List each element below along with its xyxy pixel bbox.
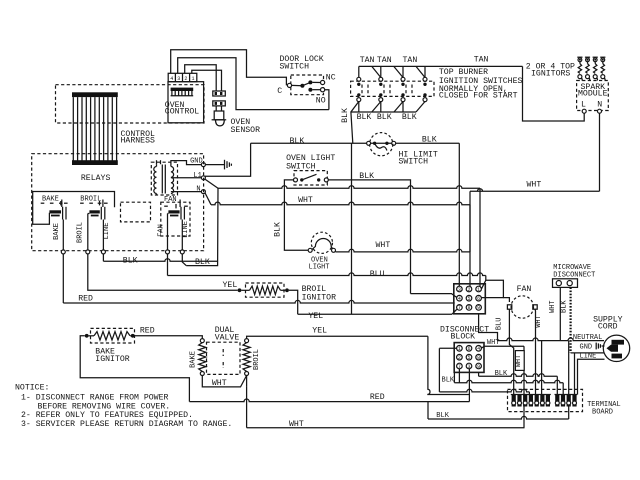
blu wire fan relay to fan [168, 273, 486, 276]
wire line1 blk to L1 vertical [102, 254, 104, 261]
svg-text:WHT: WHT [549, 300, 557, 313]
ignition switch 2 bottom diagonal [394, 102, 403, 113]
boxed WHT label on wires [515, 351, 524, 371]
wht vertical drop to block col2 [469, 191, 471, 286]
broil ignitor resistor [241, 289, 249, 291]
svg-text:WHT: WHT [212, 379, 227, 388]
svg-text:BLK: BLK [436, 412, 449, 420]
svg-text:FAN: FAN [157, 224, 165, 237]
neutral wire to upper block [479, 314, 498, 341]
terminal line1 [101, 250, 105, 254]
wire blk drop from switches [351, 102, 359, 144]
svg-text:C: C [277, 87, 282, 96]
fan relay dashed box [161, 202, 190, 236]
wire fan relay blu [167, 254, 169, 276]
oven light lamp filament [312, 239, 333, 250]
broil valve coil [243, 343, 250, 372]
disconnect block lower box [454, 343, 484, 373]
svg-text:BLK: BLK [561, 300, 569, 313]
jumper loop right of upper block [481, 280, 503, 297]
wire L1 vertical down [186, 188, 218, 265]
neutral riser to comb [541, 341, 543, 395]
svg-text:L1: L1 [193, 172, 201, 180]
spark ignitor symbol 4 [601, 58, 605, 62]
wire spark N white down [599, 113, 601, 191]
relays ribbon top bar [72, 92, 118, 97]
chassis ground symbol [205, 164, 224, 166]
neutral wire [498, 338, 605, 341]
microwave terminal 2 [567, 281, 572, 286]
dual valve dashed box [207, 342, 241, 374]
wire transformer N [171, 191, 202, 193]
disconnect block lower terminal r1c1 [457, 346, 463, 352]
svg-text:BEFORE REMOVING WIRE COVER.: BEFORE REMOVING WIRE COVER. [38, 402, 171, 411]
wire broil valve bottom down [246, 376, 248, 387]
fan left stub to jumper [503, 298, 509, 302]
svg-text:BLK: BLK [341, 108, 350, 123]
svg-text:FAN: FAN [164, 196, 177, 204]
oven light lamp dashed circle [311, 232, 332, 253]
fan relay mini marks [164, 205, 168, 207]
oven sensor bulb [214, 111, 224, 120]
svg-text:TAN: TAN [360, 56, 375, 65]
oven light lamp terminals [308, 248, 312, 252]
fan wht wire down [534, 309, 537, 394]
line wire from fan relay [181, 220, 183, 251]
tan bus top [359, 65, 523, 67]
svg-text:CLOSED FOR START: CLOSED FOR START [439, 92, 518, 101]
wire oven control pin3 to door lock NO [178, 58, 329, 110]
wire NO terminal down [325, 90, 329, 110]
wire lower block left down to terminal board [438, 348, 440, 392]
transformer core [161, 165, 163, 194]
svg-text:5: 5 [467, 296, 470, 302]
wire tan bus to spark L [523, 66, 585, 121]
svg-text:1: 1 [458, 346, 461, 352]
svg-text:FAN: FAN [517, 285, 532, 294]
ignition switch column 1 contacts [358, 66, 360, 77]
disconnect block upper terminal r3c3 [476, 305, 482, 311]
svg-text:BAKE: BAKE [53, 223, 61, 240]
power transformer dashed box [151, 162, 177, 195]
ignition switch 1 top diagonal [372, 66, 381, 77]
transformer primary coil [154, 167, 157, 194]
broil ignitor junction dot left [238, 288, 242, 292]
svg-text:NOTICE:: NOTICE: [15, 384, 49, 393]
svg-text:SENSOR: SENSOR [231, 126, 261, 135]
wire lower block right wht to comb [481, 346, 524, 348]
wire transformer GND [171, 161, 202, 167]
transformer secondary coil [171, 167, 174, 194]
broil ignitor junction dot right [285, 288, 289, 292]
relay board mini marks [41, 202, 45, 204]
fan relay contact [168, 210, 179, 213]
svg-text:7: 7 [458, 364, 461, 370]
wire switch to vertical 411 [328, 180, 410, 294]
wire lower block col3 blk to comb [478, 373, 480, 377]
svg-text:9: 9 [477, 305, 480, 311]
oven control header comb [171, 88, 194, 91]
svg-text:BLK: BLK [442, 377, 455, 385]
svg-text:RELAYS: RELAYS [81, 174, 111, 183]
svg-text:6: 6 [467, 346, 470, 352]
svg-text:YEL: YEL [223, 281, 238, 290]
ignition switch column 2 contacts [380, 66, 382, 77]
svg-text:N: N [597, 101, 602, 110]
wire oven control pin4 to door lock C [171, 50, 287, 86]
svg-text:WHT: WHT [527, 181, 542, 190]
svg-text:BAKE: BAKE [42, 196, 59, 204]
wire broil ignitor yel down and right [289, 290, 298, 314]
terminal board left comb [512, 395, 516, 407]
blu wire end into jumper [485, 276, 487, 281]
line riser to comb right [574, 353, 576, 395]
svg-text:7: 7 [458, 305, 461, 311]
oven light switch contacts [294, 178, 298, 182]
wire 410 vertical to block row2 [411, 294, 457, 298]
wire oven control pin1 to oven sensor [192, 70, 222, 91]
door lock switch dashed box [291, 75, 324, 95]
svg-text:GND: GND [580, 344, 593, 352]
lower block col2 stub down to red [468, 369, 470, 402]
oven sensor legs [215, 106, 217, 111]
disconnect block lower terminal r2c1 [457, 354, 463, 360]
svg-text:BLK: BLK [359, 172, 374, 181]
disconnect block lower terminal r3c2 [466, 363, 472, 369]
svg-text:BROIL: BROIL [77, 222, 85, 243]
oven control connector plug 4321 [168, 73, 197, 81]
svg-text:BLK: BLK [195, 258, 210, 267]
svg-text:BAKE: BAKE [190, 351, 198, 368]
blk bus from switches to right [251, 142, 460, 144]
bake relay contact [49, 210, 61, 213]
svg-text:L: L [581, 101, 586, 110]
broil valve terminal bottom [245, 372, 249, 376]
svg-text:IGNITOR: IGNITOR [302, 293, 336, 302]
wire lower block corner bottom blk [453, 373, 455, 383]
svg-text:3- SERVICER PLEASE RETURN DIAG: 3- SERVICER PLEASE RETURN DIAGRAM TO RAN… [21, 420, 232, 429]
transformer N terminal [201, 190, 205, 194]
svg-text:WHT: WHT [376, 241, 391, 250]
svg-text:1: 1 [477, 287, 480, 293]
svg-text:VALVE: VALVE [215, 334, 240, 343]
disconnect block upper terminal r1c3 [476, 286, 482, 292]
wht neutral wire horizontal [211, 202, 470, 205]
bake ignitor junction dot left [85, 334, 89, 338]
spark ignitor symbol 2 [586, 58, 590, 62]
svg-text:IGNITORS: IGNITORS [531, 69, 570, 78]
wht wire into lower block row1 [439, 347, 456, 349]
svg-text:RED: RED [140, 326, 155, 335]
terminal fan relay [166, 250, 170, 254]
oven sensor connector lower [213, 101, 226, 106]
svg-text:6: 6 [477, 296, 480, 302]
bake and broil relay box [33, 192, 115, 225]
svg-text:BLU: BLU [496, 317, 504, 330]
svg-text:BLK: BLK [290, 137, 305, 146]
spark module N terminal [598, 109, 602, 113]
door lock switch NC terminal [321, 80, 325, 84]
line wire from broil relay [102, 220, 104, 251]
svg-text:YEL: YEL [308, 312, 323, 321]
relays ribbon wires [73, 97, 116, 160]
disconnect block lower terminal r2c3 [476, 354, 482, 360]
svg-text:2: 2 [458, 355, 461, 361]
bake ignitor junction dot right [131, 334, 135, 338]
ignition switch 3 top diagonal [416, 66, 425, 77]
svg-text:2- REFER ONLY TO FEATURES EQUI: 2- REFER ONLY TO FEATURES EQUIPPED. [21, 411, 193, 420]
svg-text:8: 8 [467, 305, 470, 311]
microwave disconnect box [553, 279, 578, 288]
disconnect block upper terminal r3c1 [457, 305, 463, 311]
ignition switch column 3 contacts [402, 66, 404, 77]
disconnect block lower terminal r3c3 [476, 363, 482, 369]
wire N diagonal to wht bus [205, 193, 211, 205]
svg-text:LINE: LINE [103, 223, 111, 240]
svg-text:BROIL: BROIL [80, 196, 101, 204]
terminal line2 [180, 250, 184, 254]
fan right terminal [533, 305, 537, 309]
terminal broil relay [86, 250, 90, 254]
svg-text:TOP BURNER: TOP BURNER [439, 68, 488, 77]
wire lamp drop from switch [284, 180, 308, 250]
svg-text:TAN: TAN [403, 56, 418, 65]
wire bake ignitor to bake valve [135, 336, 203, 339]
yel vertical drop right of valves [428, 336, 470, 394]
wire oven control pin2 to oven sensor [185, 65, 217, 91]
svg-text:TAN: TAN [474, 55, 489, 64]
disconnect block upper terminal r2c1 [457, 295, 463, 301]
relays ribbon bottom bar [72, 160, 118, 165]
svg-text:SWITCH: SWITCH [280, 62, 310, 71]
wire bake relay red down [62, 254, 64, 303]
bake ignitor dashed box [91, 328, 135, 343]
wht bottom bus [247, 427, 525, 429]
terminal board dashed box [508, 389, 583, 411]
wire bake ignitor left loop [80, 336, 189, 402]
line wire [571, 352, 605, 354]
oven light switch dashed box [294, 171, 327, 185]
svg-text:MODULE: MODULE [578, 90, 608, 99]
svg-text:BLK: BLK [402, 113, 417, 122]
wire 351 vertical continues down [351, 143, 353, 314]
svg-text:N: N [196, 186, 200, 194]
svg-text:3: 3 [458, 287, 461, 293]
svg-text:BLK: BLK [495, 370, 508, 378]
disconnect block lower terminal r2c2 [466, 354, 472, 360]
svg-text:5: 5 [467, 355, 470, 361]
wire line2 blk to L1 vertical [182, 254, 186, 266]
ignition switch 2 top diagonal [394, 66, 403, 77]
microwave blk dotted wire down [569, 287, 571, 353]
wire yel broil valve top [247, 336, 428, 338]
svg-text:SWITCH: SWITCH [286, 162, 316, 171]
wire transformer L1 [171, 177, 202, 179]
door lock switch NO terminal [321, 88, 325, 92]
transformer GND terminal [201, 163, 205, 167]
svg-text:YEL: YEL [312, 326, 327, 335]
transformer top leads to relays ribbon [156, 160, 158, 164]
ignition switch bottom bus [351, 111, 416, 113]
L1 wire horizontal [218, 186, 480, 189]
svg-text:RED: RED [370, 393, 385, 402]
wire blk bus left drop to control board [204, 143, 251, 176]
line2 wire from plug [578, 359, 605, 394]
transformer L1 terminal [201, 176, 205, 180]
hi limit switch dashed circle [370, 133, 393, 156]
svg-text:BLK: BLK [273, 222, 282, 237]
disconnect block lower terminal r3c1 [457, 363, 463, 369]
svg-text:NEUTRAL: NEUTRAL [573, 334, 602, 342]
L1 vertical right drop [479, 188, 481, 286]
disconnect block upper terminal r2c2 [466, 295, 472, 301]
oven sensor connector upper [213, 91, 226, 96]
lower block col1 stub [458, 369, 460, 383]
hi limit switch contacts [367, 141, 371, 145]
broil relay contact [89, 210, 99, 213]
svg-text:BLU: BLU [370, 270, 385, 279]
microwave terminal 1 [556, 281, 561, 286]
control board dashed enclosure [32, 154, 204, 251]
wire broil relay yel to ignitor [88, 254, 238, 290]
svg-text:BROIL: BROIL [253, 349, 261, 370]
broil ignitor dashed box [246, 283, 285, 297]
svg-text:4: 4 [458, 296, 461, 302]
yel wire to disconnect block row3 [298, 313, 452, 315]
ignition switches dashed box [351, 81, 434, 96]
svg-text:IGNITOR: IGNITOR [95, 355, 129, 364]
svg-text:WHT: WHT [298, 196, 313, 205]
gnd wire and symbol [602, 345, 605, 347]
blk bus right drop to block col1 [458, 143, 460, 286]
svg-text:4: 4 [477, 346, 480, 352]
disconnect block upper box [454, 284, 486, 314]
svg-text:TAN: TAN [377, 56, 392, 65]
svg-text:BLK: BLK [377, 113, 392, 122]
svg-text:WHT: WHT [535, 315, 543, 328]
svg-text:RED: RED [78, 294, 93, 303]
svg-text:HARNESS: HARNESS [121, 137, 155, 146]
terminal board right comb [555, 395, 559, 407]
supply cord plug [603, 335, 629, 361]
ignition switch column 4 contacts [424, 66, 426, 77]
wht lamp wire to right [336, 249, 471, 252]
svg-text:BLK: BLK [123, 257, 138, 266]
svg-text:WHT: WHT [289, 420, 304, 429]
svg-text:9: 9 [477, 364, 480, 370]
svg-text:SWITCH: SWITCH [399, 158, 429, 167]
fan motor dashed circle [511, 296, 533, 318]
svg-text:LINE: LINE [182, 221, 190, 238]
spark ignitor symbol 3 [593, 58, 597, 62]
oven control board outline [168, 82, 204, 123]
door lock switch C terminal [287, 83, 291, 87]
svg-text:NO: NO [316, 96, 326, 105]
fan blu wire down [509, 309, 513, 394]
wire L1 diagonal to bus [205, 179, 218, 188]
bake valve coil [199, 343, 206, 372]
svg-text:LIGHT: LIGHT [309, 264, 330, 272]
svg-text:BLK: BLK [357, 113, 372, 122]
disconnect block upper terminal r1c1 [457, 286, 463, 292]
disconnect block lower terminal r1c3 [476, 346, 482, 352]
terminal bake relay [61, 250, 65, 254]
disconnect block lower terminal r1c2 [466, 346, 472, 352]
svg-text:BLK: BLK [422, 136, 437, 145]
spark ignitor symbol 1 [578, 58, 582, 62]
disconnect block upper terminal r3c2 [466, 305, 472, 311]
svg-text:BLOCK: BLOCK [451, 333, 476, 342]
control harness dashed enclosure [56, 85, 205, 123]
bake ignitor resistor [89, 335, 94, 337]
svg-text:WHT: WHT [515, 355, 523, 368]
neutral-line long vertical [568, 341, 570, 419]
broil valve terminal top [245, 339, 249, 343]
disconnect block upper terminal r2c3 [476, 295, 482, 301]
svg-text:1- DISCONNECT RANGE FROM POWER: 1- DISCONNECT RANGE FROM POWER [21, 394, 168, 403]
ignition switch 1 bottom diagonal [372, 102, 381, 113]
svg-text:2: 2 [467, 287, 470, 293]
spark module L terminal [582, 109, 586, 113]
ignition switch 3 bottom diagonal [416, 102, 425, 113]
wire wht under valves [202, 376, 246, 387]
blk bottom long wire [428, 416, 569, 419]
spark module dashed box [577, 81, 609, 111]
microwave wht wire down [559, 287, 561, 340]
svg-text:3: 3 [467, 364, 470, 370]
disconnect block upper terminal r1c2 [466, 286, 472, 292]
svg-text:BOARD: BOARD [592, 408, 613, 416]
svg-text:NC: NC [326, 74, 336, 83]
bake valve terminal top [200, 339, 204, 343]
door lock switch contacts [292, 84, 303, 86]
bake valve terminal bottom [200, 372, 204, 376]
svg-text:CONTROL: CONTROL [165, 108, 199, 117]
svg-text:CORD: CORD [598, 323, 618, 332]
svg-text:8: 8 [477, 355, 480, 361]
fan left terminal [507, 305, 511, 309]
middle dashed box [121, 202, 151, 222]
